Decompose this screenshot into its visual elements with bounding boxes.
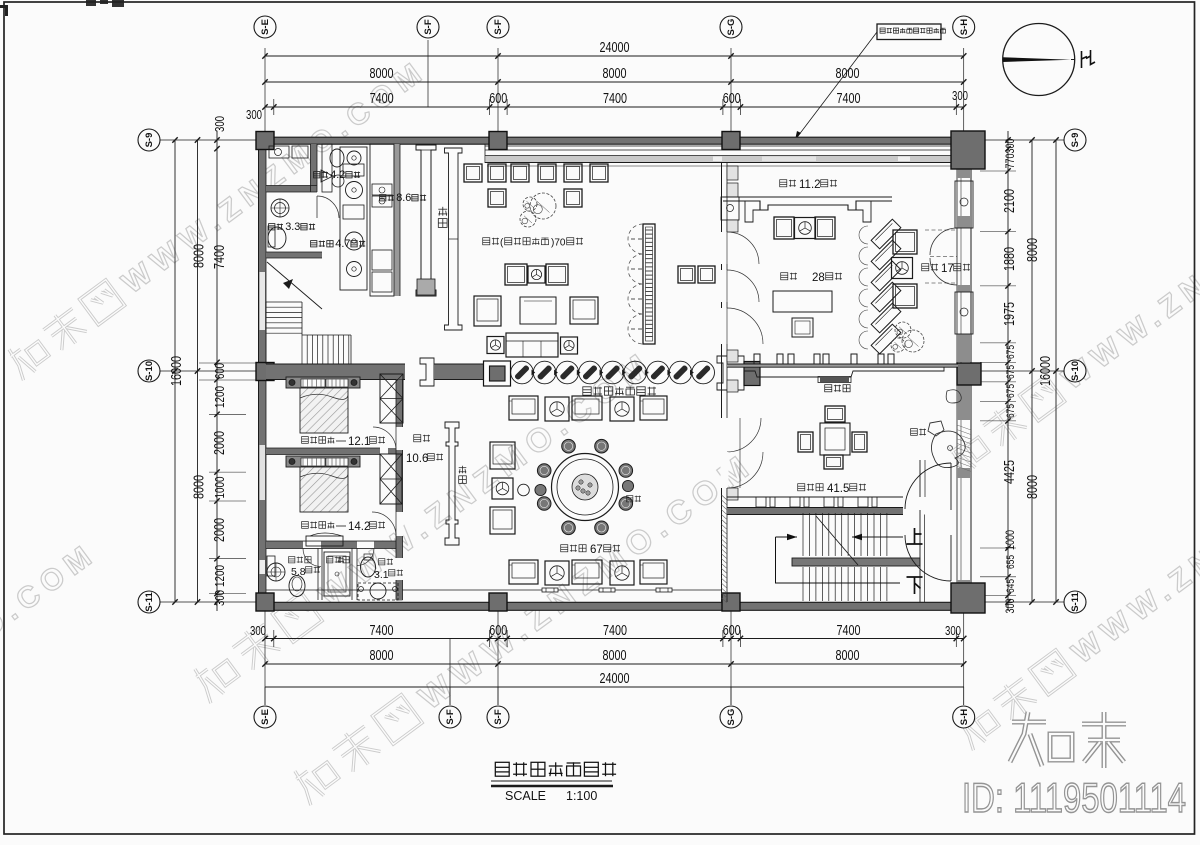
- second toilet top: [322, 144, 332, 192]
- svg-text:S-F: S-F: [493, 709, 504, 725]
- svg-text:S-F: S-F: [493, 19, 504, 35]
- svg-text:17: 17: [941, 263, 954, 275]
- grid columns: [256, 132, 274, 150]
- lattice screen east of cafe: [643, 224, 655, 344]
- svg-text:S-E: S-E: [260, 709, 271, 725]
- right dimension lines: [1055, 140, 1057, 602]
- svg-text:4.7: 4.7: [335, 238, 350, 250]
- svg-text:10.6: 10.6: [406, 453, 428, 465]
- bedroom walls: [266, 448, 380, 455]
- small pair seats east walkway: [678, 266, 695, 283]
- svg-text:2000: 2000: [212, 431, 228, 455]
- svg-text:)70: )70: [551, 238, 566, 249]
- theme wall (zhutiqiang): [754, 354, 760, 364]
- svg-text:300: 300: [212, 590, 227, 606]
- passage label (guolang): [780, 180, 787, 187]
- svg-text:300: 300: [1003, 598, 1017, 613]
- svg-text:7400: 7400: [837, 91, 861, 107]
- svg-text:24000: 24000: [600, 671, 630, 687]
- zhimo logo: [1010, 712, 1126, 768]
- svg-text:300: 300: [952, 88, 968, 103]
- zhaobi screen: [445, 422, 459, 545]
- svg-text:4425: 4425: [1002, 460, 1018, 484]
- entry door arcs right wall: [930, 228, 957, 255]
- right wing west wall: [721, 163, 723, 602]
- svg-text:S-H: S-H: [959, 19, 970, 36]
- svg-text:300: 300: [1003, 138, 1017, 153]
- top-left room fixtures: [269, 146, 289, 158]
- corridor head bracket: [420, 358, 434, 386]
- svg-text:675: 675: [1005, 365, 1017, 379]
- bedroom labels: [302, 437, 309, 444]
- bed 1: [286, 377, 360, 388]
- svg-text:S-11: S-11: [1070, 592, 1081, 612]
- chairs around table: [595, 439, 609, 453]
- svg-text:1:100: 1:100: [566, 789, 597, 803]
- stair arrows: [852, 536, 903, 538]
- svg-text:600: 600: [723, 623, 741, 639]
- bar counter: [416, 145, 436, 296]
- bath room fixtures top-left: [271, 199, 289, 217]
- bathrooms bottom-left: [317, 549, 319, 601]
- svg-text:2100: 2100: [1002, 189, 1018, 213]
- svg-text:67: 67: [590, 544, 603, 556]
- svg-text:16000: 16000: [1038, 356, 1054, 386]
- svg-text:300: 300: [246, 107, 262, 122]
- plants cafe: [523, 197, 537, 211]
- svg-text:655: 655: [1005, 555, 1017, 569]
- svg-text:8000: 8000: [836, 66, 860, 82]
- council label: [561, 545, 568, 552]
- svg-text:2000: 2000: [212, 518, 228, 542]
- middle band wall left wing: [266, 364, 405, 380]
- svg-text:S-F: S-F: [423, 19, 434, 35]
- svg-text:S-10: S-10: [1070, 361, 1081, 381]
- game room label: [798, 484, 805, 491]
- stray top-edge marks: [0, 5, 8, 16]
- tea rock (chahai): [946, 390, 961, 403]
- study label: [781, 273, 788, 280]
- svg-text:1000: 1000: [1003, 530, 1017, 550]
- svg-text:S-G: S-G: [726, 19, 737, 36]
- svg-text:7400: 7400: [603, 91, 627, 107]
- svg-text:ID: 1119501114: ID: 1119501114: [962, 774, 1186, 821]
- svg-text:41.5: 41.5: [827, 483, 849, 495]
- svg-text:S-10: S-10: [144, 361, 155, 381]
- svg-text:8000: 8000: [603, 66, 627, 82]
- svg-text:12.1: 12.1: [348, 436, 370, 448]
- svg-text:24000: 24000: [600, 40, 630, 56]
- top-left stair: [266, 301, 302, 303]
- svg-text:600: 600: [489, 91, 507, 107]
- svg-text:8.6: 8.6: [396, 192, 411, 204]
- study desk + stool: [773, 291, 832, 312]
- council round table: [552, 454, 619, 521]
- svg-text:600: 600: [723, 91, 741, 107]
- cafe mid seating: [505, 264, 527, 285]
- svg-text:11.2: 11.2: [799, 179, 821, 191]
- svg-text:675: 675: [1005, 345, 1017, 359]
- left dimension lines: [174, 140, 176, 602]
- svg-text:SCALE: SCALE: [505, 789, 546, 803]
- cafe label: [483, 238, 490, 245]
- study gate ornate: [723, 197, 892, 210]
- radiator panels right wall: [955, 181, 973, 228]
- svg-text:4.2: 4.2: [330, 169, 345, 181]
- lattice door (tonggao zhongshi huagemen): [511, 361, 534, 384]
- svg-text:8000: 8000: [1025, 475, 1041, 499]
- middle grid column framed: [484, 361, 511, 386]
- outer walls: [256, 137, 974, 144]
- svg-text:300: 300: [212, 116, 227, 132]
- svg-text:1880: 1880: [1002, 247, 1018, 271]
- svg-text:S-H: S-H: [959, 709, 970, 726]
- svg-text:5.8: 5.8: [291, 566, 306, 578]
- wardrobes (X): [380, 374, 403, 423]
- kitchen counter: [370, 144, 394, 296]
- decorative screen column near bar: [445, 148, 463, 330]
- north arrow: [1003, 24, 1075, 96]
- watermark stripes: [4, 51, 434, 382]
- svg-text:8000: 8000: [1025, 238, 1041, 262]
- svg-text:600: 600: [212, 363, 227, 379]
- dresser room2: [306, 536, 343, 546]
- svg-text:645: 645: [1005, 579, 1017, 593]
- svg-text:8000: 8000: [192, 475, 208, 499]
- door gaps + arcs into study: [721, 232, 729, 264]
- svg-text:16000: 16000: [169, 356, 185, 386]
- wall below washroom: [266, 252, 322, 258]
- bottom dimension lines: [265, 638, 964, 640]
- council sofas bottom row: [509, 560, 538, 584]
- axis bubbles: [254, 16, 276, 38]
- game room table group: [820, 423, 850, 455]
- cafe hall chairs top row: [464, 164, 482, 182]
- svg-text:S-9: S-9: [144, 133, 155, 148]
- svg-text:1200: 1200: [212, 386, 227, 408]
- svg-text:8000: 8000: [603, 648, 627, 664]
- svg-text:600: 600: [489, 623, 507, 639]
- svg-text:S-G: S-G: [726, 709, 737, 726]
- svg-text:7400: 7400: [837, 623, 861, 639]
- svg-text:14.2: 14.2: [348, 521, 370, 533]
- room xuanguan top-left: [266, 186, 317, 193]
- bar label (batai) vertical: [442, 207, 444, 216]
- title: floor plan name: [495, 762, 509, 776]
- curtain wall band: [485, 145, 958, 147]
- svg-text:7400: 7400: [370, 91, 394, 107]
- council sofas top row: [509, 396, 538, 420]
- svg-text:S-11: S-11: [144, 592, 155, 612]
- svg-text:3.1: 3.1: [374, 569, 389, 581]
- svg-text:300: 300: [945, 623, 961, 638]
- svg-text:1000: 1000: [212, 477, 227, 499]
- svg-text:770: 770: [1003, 153, 1017, 168]
- corridor label: [414, 435, 421, 442]
- right wing junction bracket + column: [717, 356, 744, 390]
- svg-text:8000: 8000: [370, 66, 394, 82]
- hatched partition: [394, 144, 400, 296]
- study bench: [774, 217, 794, 239]
- bedroom doors: [373, 427, 396, 450]
- game room south wall with teeth: [727, 496, 903, 498]
- bathroom labels: [289, 557, 295, 563]
- qianting label: [922, 264, 929, 271]
- svg-text:675: 675: [1005, 384, 1017, 398]
- svg-text:S-E: S-E: [260, 19, 271, 35]
- kitchen fixtures column: [340, 147, 367, 290]
- svg-text:28: 28: [812, 272, 825, 284]
- svg-text:8000: 8000: [836, 648, 860, 664]
- svg-text:300: 300: [250, 623, 266, 638]
- top dimension lines: [265, 55, 964, 57]
- corridor west wall: [396, 380, 403, 601]
- svg-text:8000: 8000: [192, 244, 208, 268]
- door arcs kitchen area: [317, 196, 339, 218]
- svg-text:1975: 1975: [1002, 302, 1018, 326]
- svg-text:675: 675: [1005, 404, 1017, 418]
- leader label box (curtain wall note): [877, 24, 941, 40]
- labels kitchen/bath: [314, 172, 320, 178]
- staircase: [802, 513, 804, 556]
- svg-text:3.3: 3.3: [285, 221, 300, 233]
- cafe sofa group: [474, 296, 501, 326]
- svg-text:1200: 1200: [212, 565, 227, 587]
- stair hall door arcs right: [905, 463, 951, 509]
- study east loungers (diagonal): [871, 219, 901, 249]
- svg-text:7400: 7400: [212, 245, 228, 269]
- svg-text:7400: 7400: [603, 623, 627, 639]
- council left armchairs: [490, 442, 515, 469]
- svg-text:7400: 7400: [370, 623, 394, 639]
- svg-text:8000: 8000: [370, 648, 394, 664]
- svg-text:S-F: S-F: [445, 709, 456, 725]
- svg-text:S-9: S-9: [1070, 133, 1081, 148]
